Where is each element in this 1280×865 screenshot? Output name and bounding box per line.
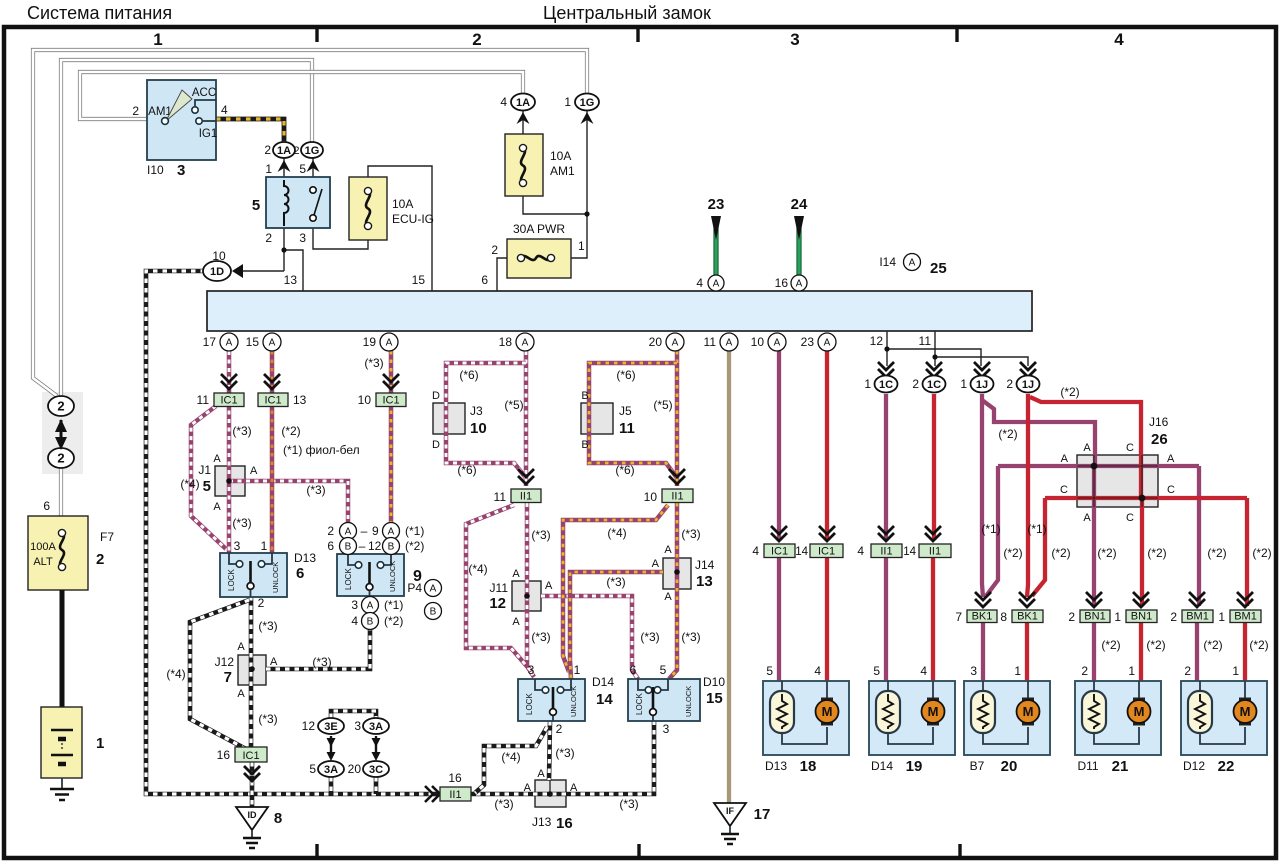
svg-text:(*3): (*3) <box>531 528 550 542</box>
svg-text:16: 16 <box>448 771 462 785</box>
svg-text:IC1: IC1 <box>818 546 835 558</box>
svg-text:A: A <box>269 338 276 349</box>
svg-text:5: 5 <box>766 664 773 678</box>
svg-text:(*2): (*2) <box>1252 546 1271 560</box>
svg-text:11: 11 <box>494 490 507 504</box>
svg-text:Центральный замок: Центральный замок <box>543 3 711 23</box>
svg-text:F7: F7 <box>100 530 114 544</box>
svg-text:B: B <box>581 390 588 402</box>
svg-text:1G: 1G <box>580 97 595 109</box>
svg-text:11: 11 <box>197 393 210 407</box>
svg-text:(*2): (*2) <box>1207 546 1226 560</box>
svg-text:2: 2 <box>265 231 272 245</box>
svg-text:2: 2 <box>293 145 299 157</box>
svg-text:LOCK: LOCK <box>635 693 644 715</box>
svg-text:(*3): (*3) <box>606 575 625 589</box>
svg-text:2: 2 <box>57 399 64 414</box>
svg-text:J3: J3 <box>470 404 483 418</box>
svg-text:(*4): (*4) <box>180 477 199 491</box>
svg-text:(*4): (*4) <box>607 526 626 540</box>
svg-text:D10: D10 <box>703 675 725 689</box>
svg-text:10: 10 <box>751 335 765 349</box>
svg-text:BK1: BK1 <box>972 611 993 623</box>
svg-text:B: B <box>581 439 588 451</box>
svg-text:6: 6 <box>630 663 637 677</box>
svg-text:18: 18 <box>499 335 513 349</box>
svg-text:A: A <box>652 558 660 570</box>
svg-text:A: A <box>226 338 233 349</box>
svg-text:I10: I10 <box>147 163 164 177</box>
svg-text:(*4): (*4) <box>166 667 185 681</box>
svg-text:12: 12 <box>489 595 506 612</box>
svg-text:3: 3 <box>528 663 535 677</box>
svg-text:(*3): (*3) <box>312 655 331 669</box>
svg-text:(*2): (*2) <box>1249 638 1268 652</box>
svg-text:BK1: BK1 <box>1017 611 1038 623</box>
svg-text:(*2): (*2) <box>1147 546 1166 560</box>
svg-text:1: 1 <box>960 377 967 391</box>
svg-text:2: 2 <box>264 143 271 157</box>
svg-text:A: A <box>713 279 720 290</box>
svg-text:22: 22 <box>1218 758 1235 775</box>
svg-text:M: M <box>1240 704 1251 719</box>
svg-text:3: 3 <box>177 162 185 179</box>
svg-text:(*1): (*1) <box>1027 522 1046 536</box>
svg-text:IF: IF <box>726 806 735 816</box>
svg-text:4: 4 <box>351 614 358 628</box>
svg-text:B7: B7 <box>970 759 985 773</box>
svg-text:ECU-IG: ECU-IG <box>392 212 434 226</box>
svg-text:2: 2 <box>1184 664 1191 678</box>
svg-text:1: 1 <box>1128 664 1135 678</box>
svg-text:I14: I14 <box>879 255 896 269</box>
svg-text:2: 2 <box>472 30 481 49</box>
svg-text:B: B <box>345 542 352 553</box>
svg-text:P4: P4 <box>407 581 422 595</box>
svg-text:IG1: IG1 <box>199 128 218 140</box>
svg-text:C: C <box>1126 442 1134 454</box>
svg-text:A: A <box>237 641 245 653</box>
svg-text:1: 1 <box>265 162 272 176</box>
svg-text:M: M <box>1023 704 1034 719</box>
svg-text:A: A <box>522 338 529 349</box>
svg-text:19: 19 <box>906 758 923 775</box>
svg-text:(*1): (*1) <box>981 522 1000 536</box>
svg-text:J5: J5 <box>619 404 632 418</box>
svg-text:M: M <box>822 704 833 719</box>
svg-text:3: 3 <box>970 664 977 678</box>
svg-text:(*2): (*2) <box>1003 546 1022 560</box>
svg-text:21: 21 <box>1112 758 1129 775</box>
svg-text:C: C <box>1126 512 1134 524</box>
svg-text:2: 2 <box>1068 610 1075 624</box>
svg-text:13: 13 <box>284 273 298 287</box>
svg-text:13: 13 <box>696 573 713 590</box>
svg-text:A: A <box>774 338 781 349</box>
svg-text:3: 3 <box>354 719 361 733</box>
svg-text:B: B <box>430 607 437 618</box>
svg-text:A: A <box>250 465 258 477</box>
svg-text:(*3): (*3) <box>232 424 251 438</box>
svg-text:(*2): (*2) <box>384 614 403 628</box>
svg-text:12: 12 <box>302 719 316 733</box>
svg-text:20: 20 <box>348 762 362 776</box>
svg-text:IC1: IC1 <box>382 395 399 407</box>
svg-text:(*1): (*1) <box>405 524 424 538</box>
svg-text:3: 3 <box>663 722 670 736</box>
svg-text:D13: D13 <box>294 551 316 565</box>
svg-text:2: 2 <box>96 551 104 568</box>
svg-text:1A: 1A <box>277 145 291 157</box>
svg-text:7: 7 <box>955 610 962 624</box>
svg-text:7: 7 <box>224 669 232 686</box>
svg-text:11: 11 <box>919 334 932 348</box>
svg-text:J11: J11 <box>490 581 509 595</box>
svg-text:B: B <box>388 542 395 553</box>
svg-text:IC1: IC1 <box>220 395 237 407</box>
svg-text:2: 2 <box>1170 610 1177 624</box>
svg-text:(*1) фиол-бел: (*1) фиол-бел <box>283 443 360 457</box>
svg-text:2: 2 <box>132 104 139 118</box>
svg-text:(*3): (*3) <box>364 356 383 370</box>
svg-text:2: 2 <box>1006 377 1013 391</box>
svg-text:1: 1 <box>96 735 104 752</box>
svg-text:4: 4 <box>752 544 759 558</box>
svg-text:1: 1 <box>153 30 162 49</box>
svg-text:LOCK: LOCK <box>227 569 236 591</box>
svg-text:1J: 1J <box>1022 379 1034 391</box>
svg-text:6: 6 <box>481 273 488 287</box>
svg-text:(*3): (*3) <box>619 797 638 811</box>
svg-text:2: 2 <box>556 722 563 736</box>
svg-text:10: 10 <box>212 249 226 263</box>
svg-text:(*6): (*6) <box>457 463 476 477</box>
svg-text:3A: 3A <box>369 721 383 733</box>
svg-text:1A: 1A <box>516 97 530 109</box>
svg-text:A: A <box>213 501 221 513</box>
svg-text:(*2): (*2) <box>1203 638 1222 652</box>
svg-text:12: 12 <box>870 334 884 348</box>
svg-text:3: 3 <box>234 539 241 553</box>
svg-text:II1: II1 <box>929 546 941 558</box>
svg-text:D13: D13 <box>765 759 787 773</box>
svg-text:BM1: BM1 <box>1186 611 1209 623</box>
svg-text:A: A <box>1167 453 1175 465</box>
svg-text:Система питания: Система питания <box>27 3 172 23</box>
svg-text:(*4): (*4) <box>501 750 520 764</box>
svg-text:A: A <box>570 782 578 794</box>
svg-text:A: A <box>909 258 916 269</box>
svg-text:UNLOCK: UNLOCK <box>271 562 280 593</box>
svg-text:19: 19 <box>363 335 377 349</box>
svg-text:10: 10 <box>644 490 658 504</box>
svg-text:26: 26 <box>1151 431 1168 448</box>
svg-text:A: A <box>430 584 437 595</box>
svg-text:IC1: IC1 <box>771 546 788 558</box>
svg-text:A: A <box>1061 453 1069 465</box>
svg-text:4: 4 <box>920 664 927 678</box>
svg-text:14: 14 <box>903 546 916 558</box>
svg-text:A: A <box>270 656 278 668</box>
svg-text:5: 5 <box>203 478 211 495</box>
svg-text:6: 6 <box>296 565 304 582</box>
svg-text:20: 20 <box>1001 758 1018 775</box>
svg-text:4: 4 <box>500 95 507 109</box>
svg-text:2: 2 <box>327 524 334 538</box>
svg-text:–: – <box>361 524 368 538</box>
svg-text:D11: D11 <box>1077 759 1098 773</box>
svg-text:1: 1 <box>564 95 571 109</box>
svg-text:(*3): (*3) <box>681 630 700 644</box>
svg-text:17: 17 <box>754 806 771 823</box>
svg-text:10: 10 <box>470 420 487 437</box>
svg-text:II1: II1 <box>880 546 892 558</box>
svg-text:D14: D14 <box>871 759 893 773</box>
svg-text:A: A <box>213 453 221 465</box>
svg-text:2: 2 <box>491 243 498 257</box>
svg-text:UNLOCK: UNLOCK <box>388 561 397 592</box>
svg-text:11: 11 <box>704 335 717 349</box>
svg-text:1: 1 <box>578 239 585 253</box>
svg-text:15: 15 <box>246 335 260 349</box>
svg-text:1: 1 <box>1014 664 1021 678</box>
svg-text:(*3): (*3) <box>494 797 513 811</box>
svg-text:(*3): (*3) <box>258 619 277 633</box>
svg-text:14: 14 <box>596 691 613 708</box>
svg-text:1C: 1C <box>879 379 893 391</box>
svg-text:20: 20 <box>649 335 663 349</box>
svg-text:1: 1 <box>574 663 581 677</box>
svg-text:4: 4 <box>857 544 864 558</box>
svg-text:9: 9 <box>372 524 379 538</box>
svg-text:(*2): (*2) <box>281 424 300 438</box>
svg-text:10A: 10A <box>550 149 571 163</box>
svg-text:2: 2 <box>1081 664 1088 678</box>
svg-text:A: A <box>512 616 520 628</box>
svg-text:J16: J16 <box>1149 415 1169 429</box>
svg-text:LOCK: LOCK <box>525 693 534 715</box>
svg-text:11: 11 <box>619 420 635 437</box>
svg-text:4: 4 <box>814 664 821 678</box>
svg-text:1G: 1G <box>305 145 320 157</box>
svg-text:23: 23 <box>708 196 725 213</box>
svg-text:A: A <box>672 338 679 349</box>
svg-text:1: 1 <box>864 377 871 391</box>
svg-text:5: 5 <box>873 664 880 678</box>
svg-text:D12: D12 <box>1183 759 1205 773</box>
svg-text:5: 5 <box>299 162 306 176</box>
svg-text:(*3): (*3) <box>681 527 700 541</box>
svg-text:AM1: AM1 <box>550 164 575 178</box>
svg-text:D: D <box>432 390 440 402</box>
svg-text:6: 6 <box>43 499 50 513</box>
svg-text:3: 3 <box>299 231 306 245</box>
svg-text:(*6): (*6) <box>616 368 635 382</box>
svg-text:16: 16 <box>556 815 573 832</box>
svg-text:A: A <box>1083 442 1091 454</box>
svg-text:(*2): (*2) <box>405 539 424 553</box>
svg-text:25: 25 <box>930 260 947 277</box>
svg-text:A: A <box>237 688 245 700</box>
svg-text:3: 3 <box>351 598 358 612</box>
svg-text:(*3): (*3) <box>306 483 325 497</box>
svg-text:II1: II1 <box>671 491 683 503</box>
svg-text:(*2): (*2) <box>1051 546 1070 560</box>
svg-text:10: 10 <box>358 393 372 407</box>
svg-text:5: 5 <box>660 663 667 677</box>
svg-text:A: A <box>664 591 672 603</box>
svg-text:A: A <box>1083 512 1091 524</box>
svg-text:23: 23 <box>801 335 815 349</box>
svg-text:A: A <box>545 580 553 592</box>
svg-text:BN1: BN1 <box>1131 611 1152 623</box>
svg-text:BM1: BM1 <box>1234 611 1257 623</box>
svg-text:A: A <box>386 338 393 349</box>
svg-text:5: 5 <box>309 762 316 776</box>
svg-text:(*2): (*2) <box>998 427 1017 441</box>
svg-text:(*2): (*2) <box>1060 385 1079 399</box>
svg-text:(*1): (*1) <box>384 598 403 612</box>
svg-text:18: 18 <box>800 758 817 775</box>
svg-text:16: 16 <box>217 748 231 762</box>
svg-text:8: 8 <box>274 810 282 827</box>
svg-text:1: 1 <box>1114 610 1121 624</box>
svg-text:17: 17 <box>203 335 217 349</box>
svg-text:4: 4 <box>1114 30 1124 49</box>
svg-text:UNLOCK: UNLOCK <box>569 686 578 717</box>
svg-text:A: A <box>512 568 520 580</box>
svg-text:II1: II1 <box>520 491 532 503</box>
svg-text:(*5): (*5) <box>653 398 672 412</box>
svg-text:M: M <box>928 704 939 719</box>
svg-text:A: A <box>537 768 545 780</box>
svg-text:(*3): (*3) <box>258 712 277 726</box>
svg-text:A: A <box>388 527 395 538</box>
svg-text:UNLOCK: UNLOCK <box>684 686 693 717</box>
svg-text:A: A <box>726 338 733 349</box>
svg-text:(*5): (*5) <box>504 398 523 412</box>
svg-text:4: 4 <box>696 276 703 290</box>
svg-text:(*3): (*3) <box>232 516 251 530</box>
svg-text:IC1: IC1 <box>264 395 281 407</box>
svg-text:A: A <box>345 527 352 538</box>
svg-text:1J: 1J <box>976 379 988 391</box>
svg-text:4: 4 <box>221 103 228 117</box>
svg-text:(*2): (*2) <box>1097 546 1116 560</box>
svg-text:II1: II1 <box>449 789 461 801</box>
svg-text:1C: 1C <box>927 379 941 391</box>
svg-text:(*2): (*2) <box>1146 638 1165 652</box>
svg-text:ACC: ACC <box>192 87 216 99</box>
svg-text:3A: 3A <box>324 764 338 776</box>
svg-text:14: 14 <box>795 546 808 558</box>
svg-text:(*6): (*6) <box>459 368 478 382</box>
svg-text:13: 13 <box>293 393 307 407</box>
svg-text:A: A <box>367 601 374 612</box>
svg-text:ID: ID <box>248 810 258 820</box>
svg-text:D14: D14 <box>592 675 614 689</box>
svg-text:B: B <box>367 617 374 628</box>
svg-text:2: 2 <box>912 377 919 391</box>
svg-text:(*6): (*6) <box>615 463 634 477</box>
svg-text:J12: J12 <box>215 655 235 669</box>
svg-text:5: 5 <box>252 197 260 214</box>
svg-text:(*3): (*3) <box>640 630 659 644</box>
svg-text:1D: 1D <box>210 266 224 278</box>
svg-text:–: – <box>359 539 366 553</box>
svg-text:30A PWR: 30A PWR <box>513 222 565 236</box>
svg-text:A: A <box>664 544 672 556</box>
svg-text:J14: J14 <box>695 558 715 572</box>
svg-text:J13: J13 <box>532 815 552 829</box>
svg-text:15: 15 <box>706 690 723 707</box>
svg-text:(*3): (*3) <box>531 630 550 644</box>
svg-text:6: 6 <box>327 539 334 553</box>
svg-text:(*4): (*4) <box>468 562 487 576</box>
svg-text:3E: 3E <box>324 721 337 733</box>
svg-text:24: 24 <box>791 196 808 213</box>
svg-text:C: C <box>1167 484 1175 496</box>
svg-text:1: 1 <box>1232 664 1239 678</box>
svg-text:A: A <box>824 338 831 349</box>
svg-text:8: 8 <box>1000 610 1007 624</box>
svg-text:15: 15 <box>412 273 426 287</box>
svg-text:2: 2 <box>57 451 64 466</box>
svg-text:100A: 100A <box>30 541 56 553</box>
svg-text:LOCK: LOCK <box>344 568 353 590</box>
svg-text:M: M <box>1134 704 1145 719</box>
svg-text:1: 1 <box>261 539 268 553</box>
svg-text:C: C <box>1060 484 1068 496</box>
svg-text:16: 16 <box>775 276 789 290</box>
svg-text:(*3): (*3) <box>555 746 574 760</box>
svg-text:12: 12 <box>368 539 382 553</box>
svg-text:J1: J1 <box>198 463 211 477</box>
svg-text:BN1: BN1 <box>1084 611 1105 623</box>
svg-text:D: D <box>432 439 440 451</box>
svg-text:IC1: IC1 <box>242 750 259 762</box>
svg-text:ALT: ALT <box>33 556 53 568</box>
svg-text:(*2): (*2) <box>1101 638 1120 652</box>
svg-text:10A: 10A <box>392 197 413 211</box>
svg-text:A: A <box>524 782 532 794</box>
svg-text:3: 3 <box>790 30 799 49</box>
svg-text:1: 1 <box>1218 610 1225 624</box>
svg-text:2: 2 <box>258 596 265 610</box>
svg-text:A: A <box>796 279 803 290</box>
svg-text:3C: 3C <box>369 764 383 776</box>
